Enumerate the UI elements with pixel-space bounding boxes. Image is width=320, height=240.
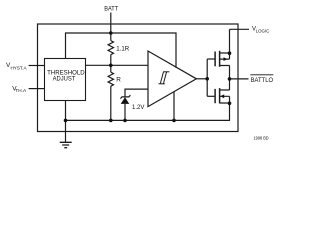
svg-text:HYST.A: HYST.A [11, 65, 28, 71]
svg-text:R: R [116, 76, 121, 83]
svg-text:1.2V: 1.2V [132, 104, 145, 111]
svg-text:TH.A: TH.A [15, 88, 26, 94]
svg-text:ADJUST: ADJUST [53, 75, 76, 82]
svg-text:1998 BD: 1998 BD [254, 135, 269, 140]
svg-text:BATTLO: BATTLO [251, 77, 274, 84]
svg-text:BATT: BATT [104, 6, 118, 13]
svg-text:1.1R: 1.1R [116, 45, 129, 52]
svg-text:LOGIC: LOGIC [256, 29, 270, 35]
